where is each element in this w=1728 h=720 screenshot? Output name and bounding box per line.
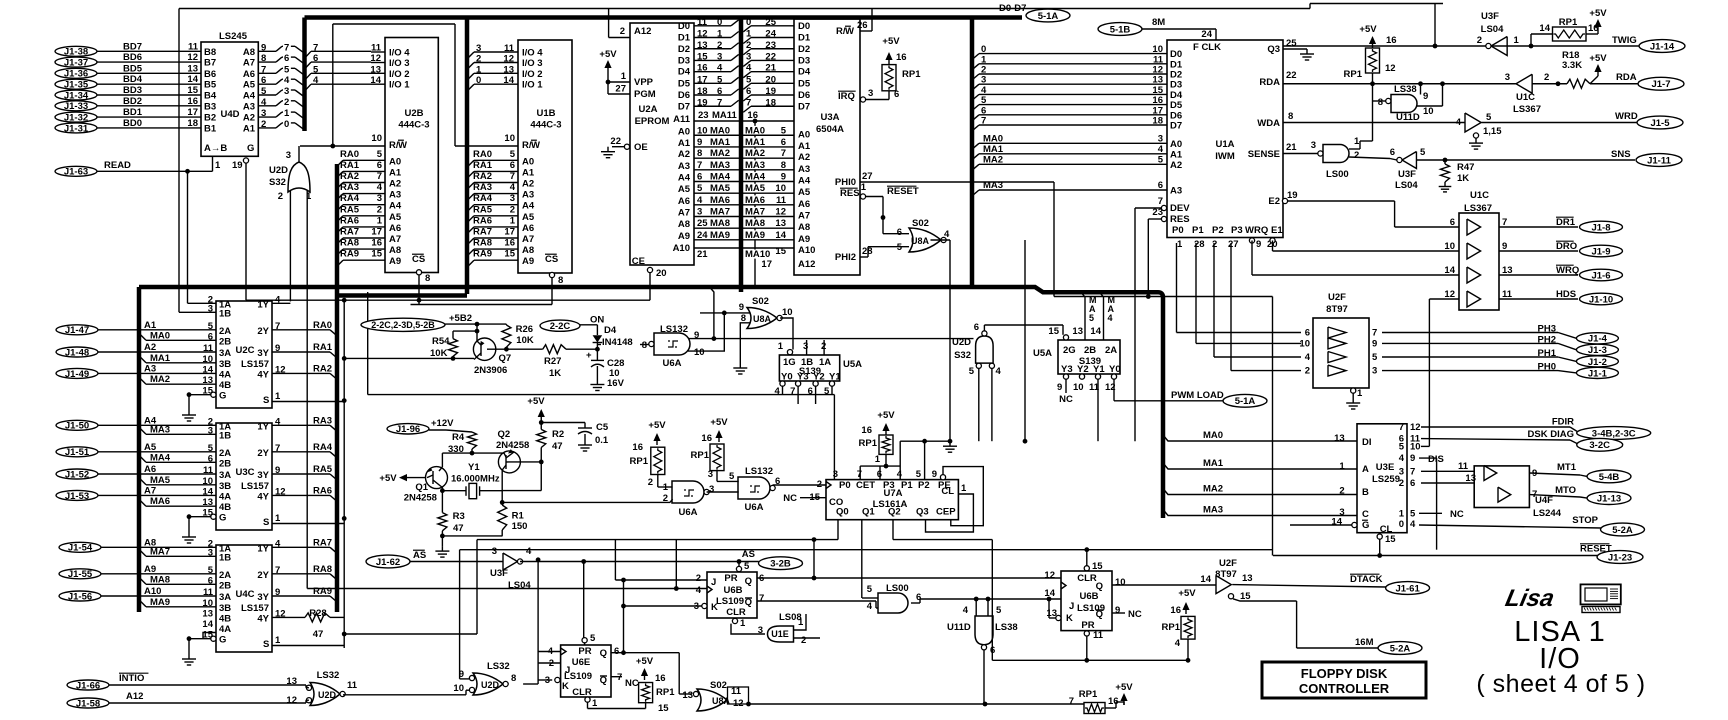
wire U2C 1Y to gate [272,302,290,304]
wire BD1 [97,116,201,118]
RAM U2B 444C-3 [385,38,438,273]
svg-text:D2: D2 [798,44,810,55]
svg-text:19: 19 [232,160,243,171]
svg-text:LS32: LS32 [487,661,510,672]
svg-text:17: 17 [504,227,515,238]
wire P1 P2 gnd [900,440,924,442]
svg-text:23: 23 [698,110,709,121]
connector J1-32 [55,112,97,122]
svg-text:1: 1 [875,454,881,465]
IC U1A IWM [1167,40,1283,238]
svg-text:J1-50: J1-50 [65,421,89,432]
svg-text:I/O 4: I/O 4 [522,48,543,59]
svg-text:PGM: PGM [634,89,656,100]
svg-text:5: 5 [313,64,319,75]
svg-text:1: 1 [961,483,967,494]
wire BD2 [97,105,201,107]
svg-text:P2: P2 [918,480,930,491]
EPROM U2A [630,23,694,265]
svg-text:MA3: MA3 [983,180,1003,191]
svg-text:+5B2: +5B2 [449,313,472,324]
svg-text:1,15: 1,15 [1483,126,1502,137]
connector J1-33 [55,101,97,111]
svg-text:1: 1 [476,64,482,75]
svg-text:A10: A10 [798,245,815,256]
svg-text:D5: D5 [798,78,811,89]
wires U6B#1 inputs [615,579,707,581]
wire FDIR [1421,426,1570,428]
svg-text:RA6: RA6 [340,215,359,226]
svg-text:A3: A3 [522,190,534,201]
svg-text:7: 7 [746,97,751,108]
svg-text:21: 21 [697,249,708,260]
svg-text:5: 5 [1420,147,1426,158]
svg-text:16: 16 [861,425,872,436]
svg-text:J: J [1069,601,1074,612]
buffer bit DR1 [1467,219,1481,235]
svg-text:A2: A2 [678,149,690,160]
svg-text:J1-5: J1-5 [1650,118,1670,129]
svg-text:RA2: RA2 [473,171,492,182]
U4D pin1 wire [212,156,214,171]
wire latch q1 NC [1419,512,1442,514]
svg-text:16: 16 [504,238,515,249]
svg-text:U6A: U6A [662,358,681,369]
buffer U4D LS245 [201,42,258,156]
svg-text:PHI0: PHI0 [835,177,856,188]
svg-text:2: 2 [1305,366,1310,377]
svg-text:7: 7 [1372,328,1377,339]
svg-text:16M: 16M [1355,637,1374,648]
svg-text:Q3: Q3 [1267,44,1280,55]
wire BD4 [97,83,201,85]
svg-text:4: 4 [313,75,319,86]
wire U2D out to LS32#2 [343,694,466,696]
bus left vertical [137,287,142,612]
svg-text:Q2: Q2 [498,429,511,440]
svg-text:0: 0 [717,17,722,28]
svg-text:5-2A: 5-2A [1612,525,1633,536]
svg-text:15: 15 [1048,326,1059,337]
svg-text:4A: 4A [219,491,231,502]
svg-text:A12: A12 [126,691,143,702]
connector 5-4B [1587,470,1631,483]
svg-text:3: 3 [709,484,714,495]
svg-text:J1-14: J1-14 [1650,41,1675,52]
svg-text:4: 4 [746,63,752,74]
svg-text:4: 4 [944,229,950,240]
svg-text:5: 5 [916,469,922,480]
svg-text:A4: A4 [522,201,535,212]
svg-text:5: 5 [284,64,290,75]
svg-text:A10: A10 [144,586,161,597]
wire MA4 [139,455,146,462]
svg-text:+5V: +5V [1589,53,1607,64]
svg-text:A5: A5 [522,212,535,223]
wire DSK DIAG [1421,439,1570,440]
svg-text:MA4: MA4 [150,452,171,463]
svg-text:MA0: MA0 [150,330,170,341]
connector 5-2A 16m [1378,642,1422,655]
svg-text:3Y: 3Y [257,470,269,481]
svg-text:A0: A0 [798,129,810,140]
wire MA5 [139,478,146,485]
wire BD5 [97,72,201,74]
IWM MA0-MA3 rows [972,143,979,149]
svg-text:4: 4 [1108,313,1113,323]
connector J1-37 [55,57,97,67]
svg-text:+5V: +5V [648,420,666,431]
svg-text:U2D: U2D [318,690,337,700]
svg-text:LS245: LS245 [219,31,248,42]
svg-text:RA1: RA1 [340,160,360,171]
svg-text:DIS: DIS [1428,454,1444,465]
svg-text:150: 150 [512,521,528,532]
svg-text:3: 3 [803,341,808,352]
svg-text:9: 9 [1256,239,1261,250]
svg-text:A6: A6 [389,223,401,234]
svg-text:S: S [263,639,269,650]
svg-text:Y3: Y3 [1061,364,1073,375]
wire S139 out row [368,394,835,396]
svg-text:3: 3 [476,43,481,54]
svg-text:AS: AS [742,549,755,560]
svg-text:A6: A6 [144,464,156,475]
svg-text:MA1: MA1 [983,144,1004,155]
svg-text:J1-1: J1-1 [1588,368,1608,379]
buffer PH1 [1328,352,1346,363]
svg-text:7: 7 [759,593,764,604]
svg-text:444C-3: 444C-3 [398,120,429,131]
svg-text:J1-38: J1-38 [64,47,88,58]
icon computer [1581,584,1621,604]
wire SNS row [1445,159,1635,161]
svg-text:MA9: MA9 [150,597,170,608]
svg-text:4: 4 [1399,453,1405,464]
svg-text:P1: P1 [901,480,913,491]
svg-text:2A: 2A [219,570,231,581]
svg-text:WRD: WRD [1615,111,1638,122]
svg-text:D1: D1 [798,33,811,44]
svg-text:MA0: MA0 [1203,430,1223,441]
svg-text:1: 1 [740,618,746,629]
resistor R26 10K [502,325,511,347]
wire MA6 [139,499,146,506]
svg-text:Y1: Y1 [1093,364,1105,375]
wire S32 inputs down [978,368,980,441]
svg-text:RP1: RP1 [691,450,710,461]
wire TWIG row [1283,45,1639,47]
svg-text:7: 7 [1410,466,1415,477]
power wire rp1 bottom [1116,701,1124,703]
svg-text:Q0: Q0 [836,507,849,518]
svg-text:U2B: U2B [404,108,423,119]
svg-text:IN4148: IN4148 [602,337,633,348]
connector 5-1B 8M [1098,23,1142,36]
svg-text:G: G [219,513,226,524]
svg-text:5-2A: 5-2A [1390,643,1411,654]
RAM U1B 444C-3 [518,40,572,273]
mux U2C LS157 [216,301,272,408]
svg-text:15: 15 [658,703,669,714]
wire +5B2 rail [445,323,506,325]
svg-text:D7: D7 [798,101,810,112]
svg-text:RP1: RP1 [1162,622,1181,633]
svg-text:Y1: Y1 [468,462,480,473]
svg-text:6: 6 [746,86,751,97]
svg-text:2: 2 [648,477,653,488]
svg-text:5-1A: 5-1A [1235,396,1256,407]
svg-text:D4: D4 [798,67,811,78]
svg-text:1Y: 1Y [257,543,269,554]
wire latch q10 [1421,445,1429,447]
connector 5-2A stop [1601,523,1645,536]
svg-text:D3: D3 [798,55,810,66]
svg-text:5: 5 [746,74,752,85]
connector J1-55 [59,569,101,579]
svg-text:A1: A1 [678,138,691,149]
svg-text:13: 13 [187,63,198,74]
svg-text:A2: A2 [1170,160,1182,171]
svg-text:7: 7 [510,171,515,182]
svg-text:A8: A8 [389,245,401,256]
svg-text:A6: A6 [678,196,690,207]
svg-text:U6E: U6E [572,657,590,668]
svg-text:A9: A9 [678,231,690,242]
wire I/O jog U1B [467,52,474,59]
svg-text:3A: 3A [219,592,231,603]
svg-text:5: 5 [744,561,750,572]
svg-text:U1A: U1A [1215,139,1234,150]
svg-text:J1-8: J1-8 [1591,222,1610,233]
counter U7A LS161A [826,480,958,520]
svg-text:2A: 2A [219,326,231,337]
svg-text:B5: B5 [204,80,217,91]
svg-text:10K: 10K [516,335,534,346]
svg-text:+5V: +5V [1178,588,1196,599]
svg-text:LS04: LS04 [508,580,531,591]
wires U6B#1 outputs [757,577,1061,579]
svg-text:INTIO: INTIO [119,673,144,684]
svg-text:6: 6 [1450,217,1455,228]
svg-text:1: 1 [1514,35,1520,46]
svg-text:B8: B8 [204,47,216,58]
svg-text:3: 3 [208,303,213,314]
svg-text:14: 14 [187,74,198,85]
svg-text:A1: A1 [144,320,157,331]
svg-text:8T97: 8T97 [1215,569,1237,580]
svg-text:W: W [398,140,407,151]
svg-text:7: 7 [284,42,289,53]
svg-text:CEP: CEP [936,507,956,518]
svg-text:+5V: +5V [1359,24,1377,35]
svg-text:6: 6 [284,53,289,64]
svg-text:5: 5 [996,605,1002,616]
svg-text:A10: A10 [673,243,690,254]
connector J1-8 [1580,221,1623,233]
svg-text:+5V: +5V [1589,8,1607,19]
wire latch q9 DIS [1419,457,1437,459]
svg-text:CLR: CLR [726,607,746,618]
svg-text:A3: A3 [1170,186,1182,197]
wire U3C S [272,523,344,525]
connector J1-50 [56,420,98,430]
resistor R4 330 [429,429,446,431]
capacitor C5 [541,422,585,424]
wire reset net vertical [1272,297,1274,556]
svg-text:NC: NC [1059,394,1073,405]
wire I/O jog [305,73,312,80]
svg-text:2: 2 [278,191,283,202]
resistor R2 47 [537,429,546,447]
svg-text:4: 4 [510,182,516,193]
svg-text:Q1: Q1 [415,482,428,493]
svg-text:4: 4 [1305,352,1311,363]
svg-text:LS367: LS367 [1513,104,1541,115]
wires U6B#2 inputs [1049,617,1056,619]
svg-text:J1-36: J1-36 [64,69,88,80]
svg-text:BD3: BD3 [123,85,142,96]
svg-text:LS04: LS04 [1395,180,1418,191]
svg-text:25: 25 [1286,38,1297,49]
wire U7B#2 out [911,602,920,604]
svg-text:RA1: RA1 [473,160,493,171]
svg-text:READ: READ [104,160,131,171]
svg-text:4: 4 [1456,117,1462,128]
svg-text:22: 22 [1286,70,1297,81]
wire U6A#1 out to node [640,344,649,346]
svg-text:2: 2 [663,493,668,504]
svg-text:J1-35: J1-35 [64,80,89,91]
svg-text:RA4: RA4 [473,193,493,204]
svg-text:Q7: Q7 [499,353,512,364]
svg-text:LS132: LS132 [745,466,773,477]
mux U4C LS157 [216,545,272,652]
bus B-side vertical [302,18,307,132]
svg-text:U6B: U6B [723,585,742,596]
wire base row [442,452,504,454]
svg-text:4B: 4B [219,502,231,513]
svg-text:13: 13 [286,676,297,687]
svg-text:9: 9 [1372,338,1377,349]
wire Q3 vertical right [1434,4,1436,47]
svg-text:11: 11 [1093,630,1104,641]
svg-text:0: 0 [746,17,751,28]
svg-text:U3F: U3F [490,568,508,579]
svg-text:D0-D7: D0-D7 [999,3,1026,14]
svg-text:WDA: WDA [1257,118,1280,129]
svg-text:S02: S02 [752,296,769,307]
svg-text:3: 3 [377,193,382,204]
svg-text:3: 3 [746,51,751,62]
svg-text:2B: 2B [219,458,231,469]
svg-text:Q: Q [1096,581,1103,592]
svg-text:A8: A8 [243,47,255,58]
wire Q0 row [477,539,838,541]
svg-text:RA5: RA5 [340,204,360,215]
svg-text:NC: NC [625,678,639,689]
wire dtack [1232,585,1386,587]
svg-text:I/O 4: I/O 4 [389,48,410,59]
svg-text:U2C: U2C [235,345,254,356]
svg-text:RA5: RA5 [473,204,493,215]
bus RA vertical [335,164,340,612]
wire row 549 [460,549,1273,551]
svg-text:PH2: PH2 [1538,334,1556,345]
resistor R3 47 [438,513,447,531]
svg-text:2N4258: 2N4258 [404,493,437,504]
svg-text:RP1: RP1 [1344,69,1363,80]
svg-text:BD5: BD5 [123,63,143,74]
svg-text:5: 5 [590,633,596,644]
svg-text:LS259: LS259 [1372,474,1400,485]
svg-text:16: 16 [1386,35,1397,46]
svg-text:7: 7 [377,171,382,182]
svg-text:1: 1 [621,71,627,82]
svg-text:CS: CS [412,254,425,265]
wire CET P3 P1 tie [860,465,900,467]
svg-text:7: 7 [1069,696,1074,707]
svg-text:1: 1 [1354,136,1360,147]
svg-text:A0: A0 [678,126,690,137]
svg-text:3: 3 [284,86,289,97]
svg-text:1: 1 [861,182,867,193]
svg-text:9: 9 [1423,91,1428,102]
connector J1-96 [387,424,429,434]
wire LS32#2 out to U6E K [523,683,538,685]
svg-text:A9: A9 [389,256,401,267]
svg-text:A5: A5 [798,187,811,198]
svg-text:4: 4 [1158,144,1164,155]
svg-text:J1-37: J1-37 [64,58,88,69]
svg-text:11: 11 [347,680,358,691]
svg-text:15: 15 [1385,534,1396,545]
wire MA2 [139,377,146,384]
connector 2-2C [540,320,580,331]
svg-text:1: 1 [746,29,752,40]
wire U2C S [272,401,344,403]
svg-text:MA2: MA2 [1203,484,1223,495]
connector J1-36 [55,68,97,78]
svg-text:J1-49: J1-49 [65,369,89,380]
wire RDA row [1283,83,1516,85]
svg-text:6: 6 [1410,478,1415,489]
wire I/O jog [305,84,312,91]
wire gate input 2 [289,190,291,301]
wires MA5 MA4 verticals [1081,292,1085,340]
wire Q7 base row [344,357,474,359]
connector J1-6 [1580,269,1623,281]
svg-text:NC: NC [1450,509,1464,520]
svg-text:J1-9: J1-9 [1591,246,1610,257]
svg-text:RDA: RDA [1616,72,1637,83]
svg-text:8: 8 [1378,97,1383,108]
svg-text:4B: 4B [219,380,231,391]
svg-text:Q: Q [600,648,607,659]
svg-text:W: W [531,140,540,151]
svg-text:16: 16 [632,442,643,453]
svg-text:A3: A3 [144,363,156,374]
svg-text:MA8: MA8 [150,574,170,585]
connector J1-51 [56,447,98,457]
svg-text:9: 9 [1410,453,1415,464]
svg-text:12: 12 [187,52,198,63]
svg-text:6: 6 [510,160,515,171]
decoder U5A#1 outputs [780,381,785,386]
svg-text:2: 2 [510,204,515,215]
connector J1-23 [1597,551,1643,564]
svg-text:VPP: VPP [634,77,654,88]
